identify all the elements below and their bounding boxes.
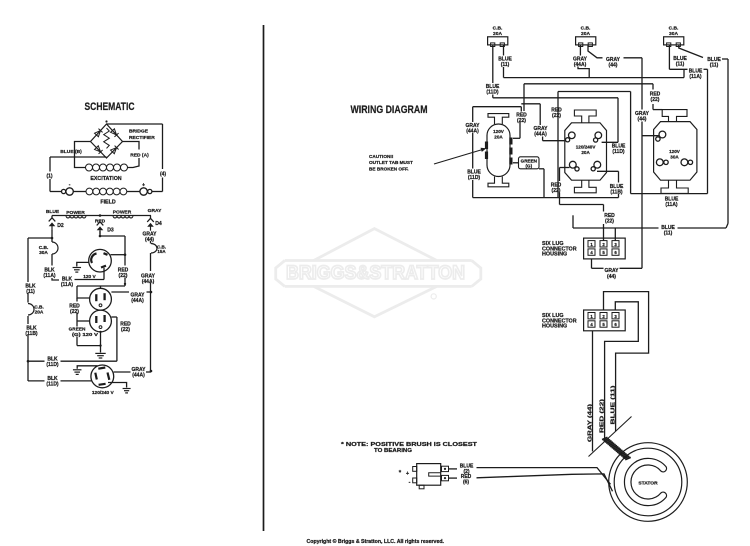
label BLK (11A) <box>43 268 56 280</box>
svg-text:D2: D2 <box>57 223 64 229</box>
ground left of 120/240 receptacle <box>73 370 82 375</box>
svg-text:BRIGGS&STRATTON: BRIGGS&STRATTON <box>286 262 465 284</box>
wire duplex lower right down <box>111 317 117 361</box>
brush polarity marks <box>399 470 411 486</box>
svg-text:C.B.: C.B. <box>669 26 679 32</box>
label SIX LUG CONNECTOR HOUSING 1 <box>542 241 577 258</box>
svg-text:BE BROKEN OFF.: BE BROKEN OFF. <box>369 166 409 171</box>
label GRAY (44) <box>143 232 158 244</box>
svg-text:(G): (G) <box>525 163 532 168</box>
wire RED to outlet1 right slots <box>513 122 520 139</box>
label BLK (11A) neutral <box>61 277 74 289</box>
wire pin3 loop inner <box>605 302 639 442</box>
svg-text:120V: 120V <box>669 149 681 154</box>
label GRAY (44) below connector1 <box>605 268 620 280</box>
svg-text:+: + <box>142 183 145 189</box>
outlet3 label 120V 30A <box>669 149 681 160</box>
wire CB3 right diagonal BLUE (11) <box>679 45 728 228</box>
label BLK (11D) lower <box>46 376 59 388</box>
junction to far-left rail <box>28 237 53 240</box>
outlet3 terminal screws <box>656 131 693 166</box>
wire receptacle right GRAY (44A) <box>114 370 153 373</box>
circuit breaker C.B. 20A <box>28 304 44 316</box>
svg-text:(44A): (44A) <box>132 373 145 379</box>
gray rail: D4 to outlets <box>150 241 152 372</box>
wire CB1 right BLUE (11) <box>503 45 505 78</box>
svg-text:(44A): (44A) <box>534 132 547 138</box>
svg-text:30A: 30A <box>39 250 48 256</box>
label BRIDGE RECTIFIER <box>129 129 155 142</box>
circuit breaker C.B. 30A <box>39 242 58 256</box>
wire power row <box>52 215 151 217</box>
wire CB1 left BLUE (11D) <box>492 45 494 98</box>
diode D3 <box>97 222 114 234</box>
divider line between schematic and wiring diagram <box>263 25 265 531</box>
wire BLK (11D) upper <box>27 360 117 363</box>
wire pin2 loop outer <box>604 292 649 432</box>
junction power center <box>99 214 102 217</box>
svg-text:OUTLET TAB MUST: OUTLET TAB MUST <box>369 160 413 165</box>
label RED (22) outlet2 TL <box>551 108 562 120</box>
svg-text:(22): (22) <box>517 118 526 124</box>
outlet1 bottom rail <box>473 197 619 199</box>
wire duplex bottom to ground <box>99 331 101 353</box>
duplex receptacle 120V lower <box>90 310 112 332</box>
brush terminal lugs <box>442 466 449 481</box>
wire receptacle left to ground <box>77 262 89 266</box>
wire RED (22) drop to outlet3 <box>653 84 662 110</box>
right rail (4) <box>152 124 163 192</box>
svg-text:(11): (11) <box>501 62 510 68</box>
svg-text:(22): (22) <box>552 113 561 119</box>
label RED (22) lower <box>120 322 131 334</box>
svg-text:-: - <box>409 480 411 486</box>
svg-text:C.B.: C.B. <box>581 26 591 32</box>
label BLK (11) <box>25 284 36 296</box>
svg-text:(44A): (44A) <box>131 298 144 304</box>
svg-text:(44): (44) <box>609 63 618 69</box>
power winding right <box>113 216 133 218</box>
svg-text:GRAY (44): GRAY (44) <box>588 404 594 442</box>
wire bridge left vertex to excitation left lead <box>75 142 91 168</box>
wire D2 down to junction <box>51 230 53 242</box>
svg-text:D3: D3 <box>107 228 114 234</box>
label BLUE (11A) outlet3 <box>665 197 679 209</box>
svg-text:WIRING DIAGRAM: WIRING DIAGRAM <box>351 104 428 116</box>
wire bridge top to right rail <box>107 123 163 125</box>
svg-text:BRIDGE: BRIDGE <box>129 129 149 135</box>
wire BLUE (B): bridge bottom to left rail <box>50 156 107 158</box>
svg-text:RED (A): RED (A) <box>130 153 149 159</box>
svg-text:(22): (22) <box>605 219 614 225</box>
ground below duplex <box>95 353 105 358</box>
excitation winding <box>86 164 128 171</box>
svg-text:(11D): (11D) <box>612 149 625 155</box>
wire duplex upper right GRAY (44A) <box>111 291 152 294</box>
svg-text:120/240V: 120/240V <box>576 145 597 150</box>
label GRAY (44) on vertical <box>635 111 650 123</box>
svg-text:D4: D4 <box>155 221 162 227</box>
outlet2 octagon body <box>565 110 607 193</box>
svg-text:(G) 120 V: (G) 120 V <box>72 332 98 337</box>
wire GRAY (44A) jog to outlet2 <box>521 104 564 141</box>
six lug connector housing 1 <box>584 238 626 259</box>
svg-text:(11): (11) <box>710 63 719 69</box>
svg-text:(11B): (11B) <box>25 331 38 337</box>
label GREEN (G) 120 V <box>69 327 99 337</box>
svg-text:(11D): (11D) <box>46 362 59 368</box>
wire RED (A): bridge right vertex to excitation right lead <box>123 142 140 168</box>
wire GRAY (44) from pin 4 <box>592 141 643 268</box>
label BLUE (2) <box>460 463 474 475</box>
wire CB3 left BLUE (11)/(11A) <box>669 45 707 194</box>
caution note <box>369 154 413 171</box>
svg-text:(11B): (11B) <box>610 190 623 196</box>
svg-text:(11D): (11D) <box>46 382 59 388</box>
label RED (22) <box>118 268 129 280</box>
wire GREEN to bottom rail <box>539 169 544 198</box>
label BLUE (11) <box>498 57 512 69</box>
svg-text:BLUE (B): BLUE (B) <box>60 149 82 155</box>
circuit breaker C.B. 15A <box>151 244 166 255</box>
bridge rectifier BR1 <box>91 120 123 158</box>
wire rail stub to neutral wire <box>52 278 59 280</box>
svg-text:20A: 20A <box>35 310 44 316</box>
svg-text:20A: 20A <box>581 31 590 37</box>
wire CB2 left GRAY (44A) <box>578 45 589 78</box>
label GRAY (44) <box>606 57 621 69</box>
label BLUE (11) long wire <box>661 225 675 237</box>
svg-text:(11D): (11D) <box>486 90 499 96</box>
diode D4 <box>147 216 162 231</box>
stator inner C-band <box>624 458 666 505</box>
label RED (22) outlet1 <box>516 113 527 125</box>
circuit breaker CB3 C.B. 30A <box>664 26 684 47</box>
label BLK (11B) <box>25 326 38 338</box>
bus RED (22) horizontal <box>524 84 653 111</box>
label RED (22) connector <box>604 213 615 225</box>
svg-text:(11A): (11A) <box>61 282 74 288</box>
bus to outlet boxes <box>558 92 631 198</box>
far-left rail BLK (11) <box>27 238 29 381</box>
label BLUE (11) right <box>707 57 721 69</box>
ground right of 120/240 receptacle <box>123 389 131 393</box>
wire RED (22) from D3 to receptacle right <box>99 231 127 266</box>
svg-text:GRAY: GRAY <box>148 208 162 214</box>
svg-text:15A: 15A <box>157 249 166 254</box>
svg-text:(11A): (11A) <box>665 202 678 208</box>
label GRAY (44A) bottom <box>132 367 147 379</box>
outlet3 box bottom rail <box>631 193 708 195</box>
label BLUE (11B) <box>610 184 624 196</box>
receptacle 120V twist-lock <box>89 249 112 272</box>
svg-text:POWER: POWER <box>113 210 132 216</box>
svg-text:HOUSING: HOUSING <box>542 324 567 330</box>
svg-text:(22): (22) <box>70 309 79 315</box>
svg-text:20A: 20A <box>581 150 590 155</box>
wire BLUE (11) long horizontal <box>573 215 726 240</box>
svg-text:C.B.: C.B. <box>493 26 503 32</box>
svg-text:(11A): (11A) <box>689 74 702 80</box>
label BLUE (11D) outlet1 <box>467 170 481 182</box>
wire BLUE (2) to stator <box>449 468 611 485</box>
ground at receptacle <box>73 268 82 273</box>
wire receptacle bottom-right to ground <box>108 383 127 388</box>
Briggs & Stratton watermark logo <box>276 229 481 317</box>
note positive brush <box>341 442 478 454</box>
label GRAY (44A) <box>573 57 588 69</box>
wire receptacle bottom slot to BLK neutral <box>75 268 105 280</box>
svg-text:STATOR: STATOR <box>638 481 658 487</box>
svg-text:20A: 20A <box>494 134 503 139</box>
bus wire above duplex <box>77 286 125 288</box>
circuit breaker CB1 C.B. 20A <box>488 26 508 47</box>
label GRAY (44A) <box>141 274 156 286</box>
wire outlet2 BR BLUE (11B) down <box>597 171 619 197</box>
label BLUE (11D) outlet2 <box>612 144 626 156</box>
outlet2 label 120/240V 20A <box>576 145 597 156</box>
label BLK (11D) <box>46 356 59 368</box>
svg-text:RED (22): RED (22) <box>599 399 605 433</box>
svg-text:(11): (11) <box>676 62 685 68</box>
receptacle 120/240V twist-lock <box>91 365 114 388</box>
label RED (22) duplex left <box>69 304 80 316</box>
wire GRAY (44) from pin 4 to stator <box>592 331 594 452</box>
svg-text:20A: 20A <box>493 31 502 37</box>
GREEN (G) box <box>513 157 539 169</box>
svg-text:(11D): (11D) <box>468 175 481 181</box>
svg-text:SCHEMATIC: SCHEMATIC <box>85 101 135 113</box>
twisted wire bundle (hatched) <box>602 437 631 459</box>
svg-text:POWER: POWER <box>66 210 85 216</box>
duplex receptacle 120V upper <box>90 288 112 310</box>
wire RED (6) to stator <box>449 474 613 491</box>
svg-text:(4): (4) <box>160 172 166 178</box>
svg-text:120V: 120V <box>493 129 505 134</box>
outlet3 octagon body <box>654 110 697 194</box>
svg-text:(1): (1) <box>46 174 52 180</box>
bus vertical to CB3-left net <box>683 69 685 77</box>
label RED (22) outlet3 <box>650 92 661 104</box>
outlet2 terminal screws <box>566 132 602 171</box>
svg-text:(6): (6) <box>463 480 469 486</box>
svg-text:(22): (22) <box>651 97 660 103</box>
label BLUE (11A) <box>689 69 703 81</box>
svg-text:BLUE: BLUE <box>46 209 60 215</box>
svg-text:(44A): (44A) <box>574 62 587 68</box>
label RED (22) below outlet2 <box>551 183 562 195</box>
wire outlet2 BL RED (22) down <box>560 168 604 205</box>
label BLUE (11D) <box>486 84 500 96</box>
diagonal wire-bundle cut line <box>589 417 632 457</box>
label RED (6) <box>461 474 472 486</box>
brush terminal left (-) <box>62 182 87 195</box>
svg-text:FIELD: FIELD <box>100 200 115 206</box>
svg-text:(22): (22) <box>121 327 130 333</box>
svg-text:120/240 V: 120/240 V <box>92 390 115 396</box>
svg-text:BLUE (11): BLUE (11) <box>611 385 617 424</box>
svg-text:(44): (44) <box>145 237 154 243</box>
wire duplex left RED (22) <box>77 286 102 347</box>
label GRAY (44A) duplex <box>131 293 146 305</box>
svg-text:TO BEARING: TO BEARING <box>374 448 412 454</box>
svg-text:(11): (11) <box>26 289 35 295</box>
wire RED continues to duplex bus <box>124 278 126 287</box>
svg-text:HOUSING: HOUSING <box>542 252 567 258</box>
outlet1 duplex capsule <box>485 114 513 187</box>
svg-text:(44A): (44A) <box>142 279 155 285</box>
wire CB2 right GRAY (44) <box>588 45 659 141</box>
svg-text:RECTIFIER: RECTIFIER <box>129 135 155 141</box>
svg-text:30A: 30A <box>669 31 678 37</box>
svg-text:(22): (22) <box>119 273 128 279</box>
bus BLUE (11D) to outlet2 <box>493 98 618 143</box>
field winding <box>86 188 127 195</box>
label GRAY (44A) mid <box>534 126 549 138</box>
svg-text:CAUTION!!: CAUTION!! <box>369 154 394 159</box>
svg-text:(22): (22) <box>552 188 561 194</box>
wire BLK (11D) lower <box>28 380 92 382</box>
svg-text:(44A): (44A) <box>466 129 479 135</box>
label BLUE (11) CB3 <box>673 56 687 68</box>
svg-text:30A: 30A <box>670 154 679 159</box>
svg-text:EXCITATION: EXCITATION <box>90 176 121 182</box>
wire RED (22) into connector pin 2 <box>603 205 605 241</box>
svg-text:(44): (44) <box>638 117 647 123</box>
svg-text:(44): (44) <box>607 274 616 280</box>
stator rings <box>609 443 688 522</box>
six lug connector housing 2 <box>584 310 626 331</box>
svg-text:Copyright © Briggs & Stratton,: Copyright © Briggs & Stratton, LLC. All … <box>307 538 445 545</box>
label GRAY (44A) outlet1 <box>466 123 481 135</box>
outlet1 label 120V 20A <box>493 129 505 139</box>
wire below CB30A <box>51 254 53 266</box>
power winding left <box>66 216 86 218</box>
wire receptacle top to ground <box>77 366 97 369</box>
svg-text:(11A): (11A) <box>43 273 56 279</box>
left rail (1) <box>50 157 61 192</box>
diode D2 <box>49 216 64 231</box>
caution leader arrow <box>434 148 487 164</box>
brush terminal right (+) <box>127 183 152 196</box>
circuit breaker CB2 C.B. 20A <box>576 26 596 47</box>
label SIX LUG CONNECTOR HOUSING 2 <box>542 313 577 330</box>
outlet1 box left rail GRAY (44A) / BLUE (11D) <box>473 107 522 198</box>
bus BLUE (11) CB1-CB3 <box>504 77 685 79</box>
svg-text:(11): (11) <box>664 231 673 237</box>
brush holder assembly <box>413 464 441 489</box>
